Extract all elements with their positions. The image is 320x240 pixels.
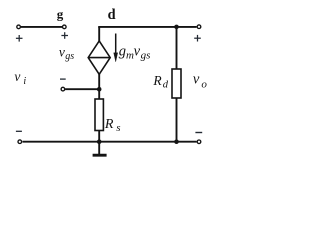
wire: bottom rail bbox=[23, 141, 197, 143]
svg-text:R: R bbox=[152, 73, 162, 88]
node vo- terminal circle bbox=[197, 140, 201, 144]
dependent source diamond gm*vgs bbox=[88, 41, 110, 74]
minus sign at vgs- bbox=[60, 78, 66, 80]
node vi+ terminal circle bbox=[17, 25, 21, 29]
label vo bbox=[193, 72, 208, 91]
label vi bbox=[14, 69, 26, 87]
svg-text:i: i bbox=[23, 76, 26, 87]
junction dot top rail / Rd branch bbox=[174, 25, 179, 30]
wire: top junction to Rd bbox=[176, 27, 178, 70]
svg-text:gs: gs bbox=[65, 51, 74, 62]
node vi- terminal circle bbox=[18, 140, 22, 144]
wire: top-left gate wire bbox=[21, 26, 62, 28]
svg-text:d: d bbox=[108, 7, 116, 23]
ground symbol bbox=[93, 154, 107, 157]
node g terminal circle bbox=[63, 25, 67, 29]
svg-text:R: R bbox=[104, 117, 114, 132]
label gm vgs bbox=[119, 44, 151, 62]
resistor Rs box bbox=[95, 99, 103, 131]
plus sign at vo+ bbox=[194, 35, 201, 42]
minus sign at vo- bbox=[195, 132, 202, 134]
junction dot at source branch / vgs- wire bbox=[97, 87, 102, 92]
resistor Rd box bbox=[172, 69, 181, 98]
wire: top rail from diamond branch to vo+ bbox=[98, 26, 196, 28]
svg-text:v: v bbox=[14, 69, 20, 84]
svg-text:g: g bbox=[57, 7, 64, 22]
arrow for gm*vgs current direction bbox=[114, 34, 118, 62]
minus sign at vi- bbox=[16, 130, 22, 132]
svg-text:s: s bbox=[116, 122, 120, 134]
svg-text:v: v bbox=[59, 44, 65, 59]
svg-text:o: o bbox=[201, 79, 207, 91]
node vgs- terminal circle bbox=[61, 87, 65, 91]
plus sign at g terminal bbox=[61, 32, 68, 39]
label Rd bbox=[152, 73, 168, 90]
wire: Rd bottom to bottom rail bbox=[176, 98, 178, 142]
plus sign at vi+ bbox=[16, 35, 23, 42]
svg-text:d: d bbox=[163, 79, 169, 90]
svg-text:g: g bbox=[119, 44, 126, 60]
label vgs bbox=[59, 44, 74, 62]
node vo+ terminal circle bbox=[197, 25, 201, 29]
wire: vgs- terminal to source branch bbox=[65, 88, 100, 90]
wire: Rs bottom to ground rail bbox=[98, 131, 100, 155]
wire: vertical from top rail down to diamond top bbox=[98, 27, 100, 42]
junction dot Rd / bottom rail bbox=[174, 139, 179, 144]
svg-text:v: v bbox=[134, 44, 141, 60]
wire: diamond bottom down to Rs bbox=[98, 74, 100, 100]
svg-text:v: v bbox=[193, 72, 200, 88]
junction dot Rs / bottom rail bbox=[97, 139, 102, 144]
svg-text:gs: gs bbox=[141, 50, 151, 62]
label Rs bbox=[104, 117, 121, 134]
